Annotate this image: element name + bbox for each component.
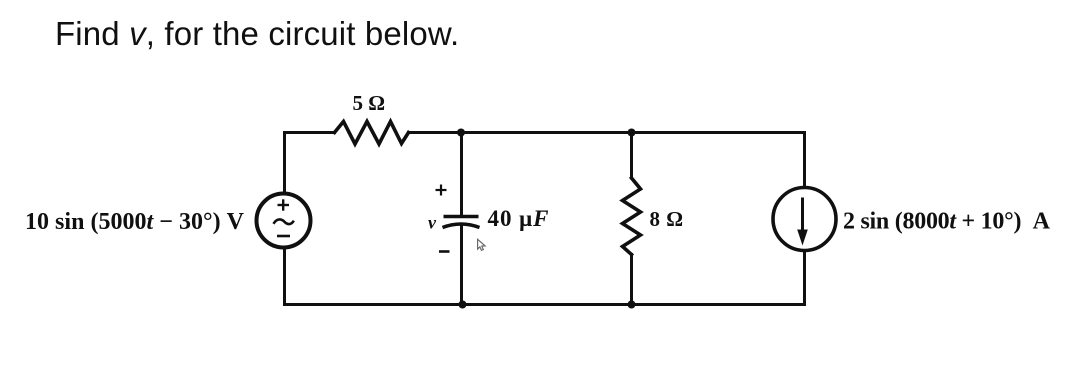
voltage source minus sign: [277, 235, 290, 238]
capacitor C1 top plate: [444, 215, 479, 219]
title text: [55, 15, 459, 53]
capacitor C1 minus polarity: [439, 250, 450, 253]
wire top-left segment: [285, 131, 335, 134]
wire left vertical below source: [283, 248, 286, 305]
mouse cursor pointer: [478, 239, 485, 250]
voltage source tilde: [274, 219, 294, 224]
wire bottom: [285, 303, 805, 306]
svg-text:5 Ω: 5 Ω: [353, 91, 386, 115]
current source I1 circle: [773, 188, 836, 251]
wire 8ohm branch upper: [630, 133, 633, 179]
node junction top of capacitor branch: [457, 129, 465, 137]
voltage source plus sign: [278, 199, 290, 210]
voltage source V1 circle: [257, 194, 311, 248]
wire capacitor branch upper: [460, 133, 463, 216]
capacitor C1 plus polarity: [436, 185, 447, 196]
resistor R1 5ohm zigzag: [335, 122, 409, 145]
current source arrow shaft: [801, 198, 804, 234]
svg-text:8 Ω: 8 Ω: [650, 207, 684, 231]
resistor R2 8ohm zigzag: [623, 178, 641, 255]
wire top right segment: [632, 131, 805, 134]
svg-text:v: v: [428, 213, 437, 233]
node junction bottom of 8ohm branch: [628, 301, 636, 309]
wire right vertical above current source: [803, 133, 806, 187]
svg-text:2 sin (8000t + 10°) A: 2 sin (8000t + 10°) A: [843, 209, 1051, 235]
wire right vertical below current source: [803, 252, 806, 305]
wire 8ohm branch lower: [630, 255, 633, 305]
svg-text:40 μF: 40 μF: [488, 206, 549, 231]
wire capacitor branch lower: [460, 226, 463, 305]
wire top middle segment: [409, 131, 632, 134]
node junction top of 8ohm branch: [628, 129, 636, 137]
node junction bottom of capacitor branch: [459, 301, 467, 309]
current source arrow head: [797, 230, 808, 246]
svg-text:10 sin (5000t − 30°) V: 10 sin (5000t − 30°) V: [25, 209, 245, 235]
wire left vertical above source: [283, 133, 286, 194]
capacitor C1 bottom plate curved: [443, 224, 480, 228]
